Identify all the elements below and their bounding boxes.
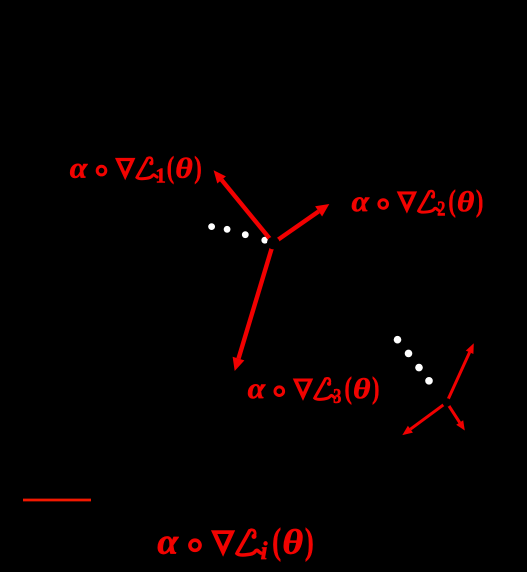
white dotted trail to main node xyxy=(208,223,215,230)
svg-text:i: i xyxy=(261,538,268,565)
arrow to upper-left (L1) xyxy=(222,180,274,243)
arrow down-left (L3) xyxy=(239,243,274,359)
main node arrows xyxy=(214,170,330,371)
main node black dot xyxy=(267,237,280,250)
svg-text:3: 3 xyxy=(333,385,341,408)
arrow down-left xyxy=(410,402,446,429)
label alpha o nabla L_3 (theta) xyxy=(248,371,380,409)
legend label alpha o nabla L_i (theta) xyxy=(157,520,313,565)
svg-text:2: 2 xyxy=(437,198,445,221)
arrow up-right xyxy=(447,352,470,402)
arrow down-right xyxy=(447,402,460,422)
label alpha o nabla L_1 (theta) xyxy=(70,150,202,187)
right node arrows xyxy=(402,343,474,435)
label alpha o nabla L_2 (theta) xyxy=(351,183,483,221)
arrow to upper-right (L2) xyxy=(273,211,318,243)
white dotted trail to right node xyxy=(394,336,402,344)
right node black dot xyxy=(442,398,451,407)
svg-text:1: 1 xyxy=(155,163,166,187)
legend line xyxy=(23,499,91,502)
